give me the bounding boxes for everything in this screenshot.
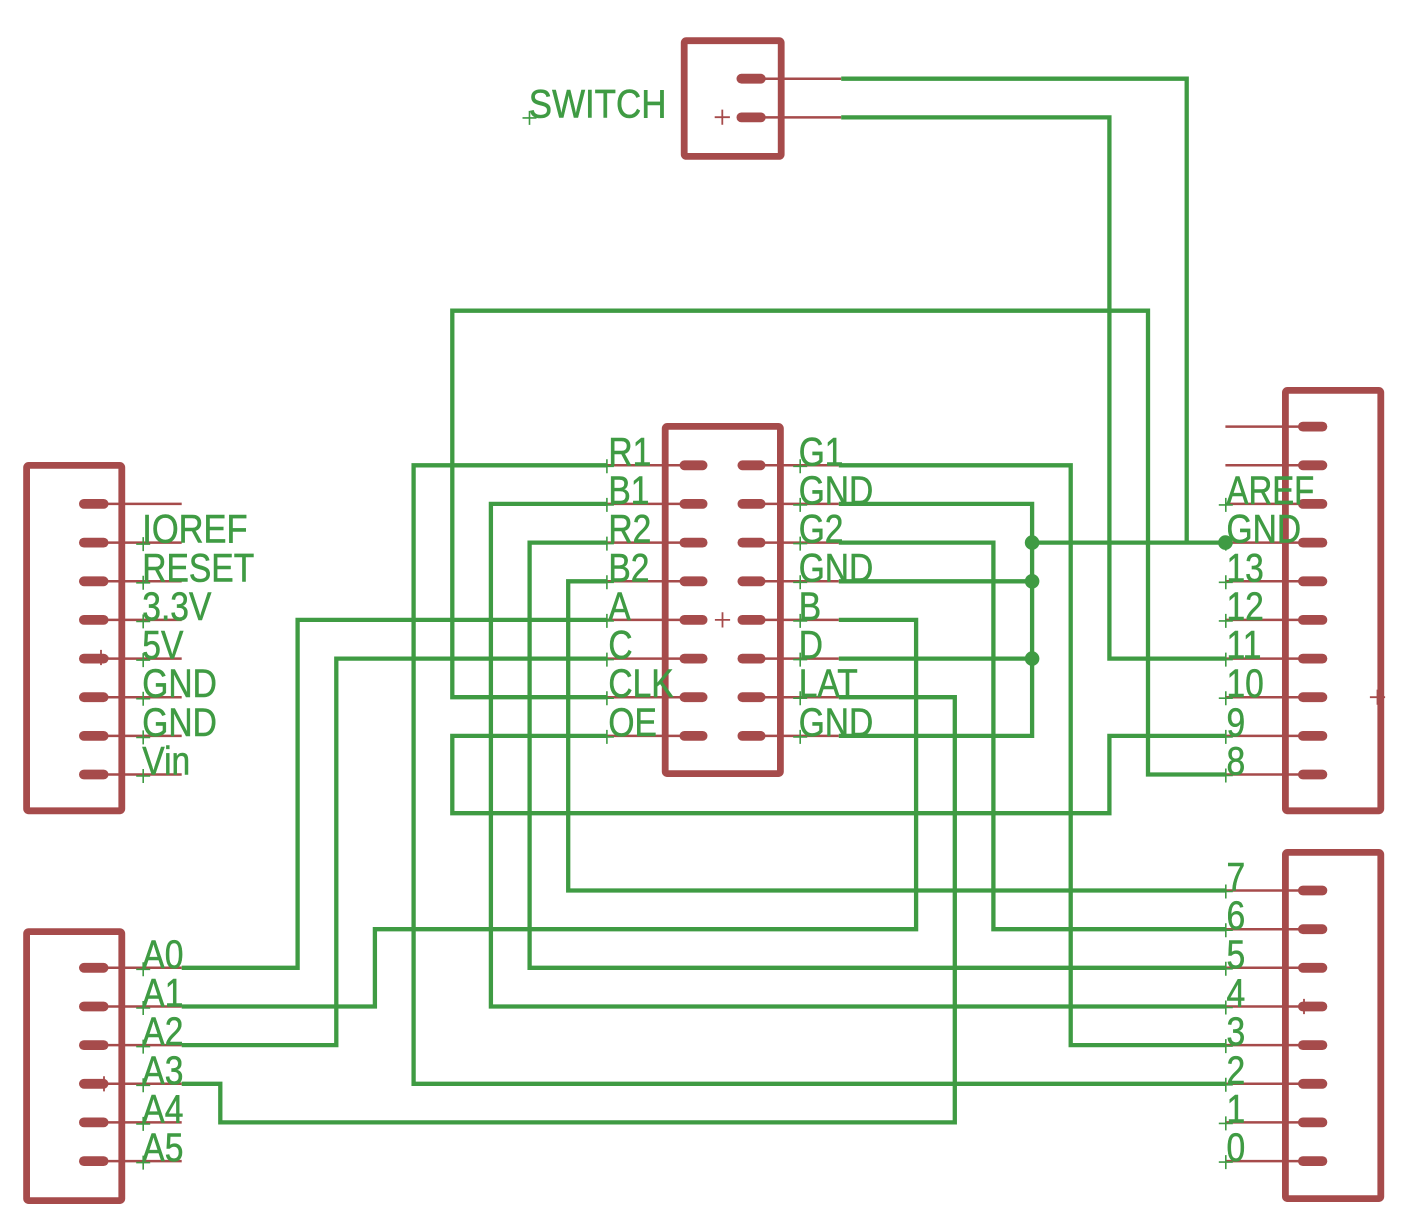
svg-text:13: 13: [1227, 546, 1264, 590]
MATRIX right pin LAT: [738, 692, 839, 702]
svg-text:G2: G2: [799, 508, 844, 552]
svg-text:3: 3: [1227, 1010, 1246, 1054]
digital header pin 8: [1225, 770, 1327, 780]
connector MATRIX body: [665, 426, 780, 773]
MATRIX left pin OE: [607, 731, 708, 741]
connector analog header origin cross: [96, 1076, 111, 1091]
power header pin IOREF: [79, 538, 182, 548]
power header pin 5V: [79, 654, 182, 664]
MATRIX left pin CLK: [607, 692, 708, 702]
pin label 1: [1219, 1087, 1245, 1131]
digital header pin 1: [1225, 1118, 1327, 1128]
power header pin Vin: [79, 770, 182, 780]
pin label B2: [600, 546, 650, 590]
pin label A0: [136, 933, 183, 977]
pin label 3: [1219, 1010, 1245, 1054]
pin label R1: [600, 430, 651, 474]
svg-text:A2: A2: [142, 1010, 183, 1054]
svg-text:A5: A5: [142, 1126, 183, 1170]
svg-text:GND: GND: [142, 662, 217, 706]
connector digital header 8-13 origin cross: [1370, 690, 1385, 705]
svg-text:3.3V: 3.3V: [142, 585, 212, 629]
MATRIX right pin B: [738, 615, 839, 625]
pin label G2 (right): [793, 508, 843, 552]
svg-text:Vin: Vin: [142, 740, 190, 784]
svg-text:GND: GND: [799, 469, 874, 513]
digital header pin GND: [1225, 538, 1327, 548]
analog header pin A2: [79, 1040, 182, 1050]
pin label 5V: [136, 624, 184, 668]
MATRIX left pin B1: [607, 499, 708, 509]
connector SWITCH pin 1: [737, 74, 842, 84]
wire G2 to pin 6: [839, 543, 1226, 930]
junction GND bus / D row: [1025, 651, 1040, 666]
svg-text:GND: GND: [142, 701, 217, 745]
digital header pin 6: [1225, 924, 1327, 934]
label SWITCH: [523, 82, 667, 126]
power header pin RESET: [79, 576, 182, 586]
analog header pin A5: [79, 1156, 182, 1166]
connector digital header 0-7 body: [1285, 852, 1380, 1198]
digital header pin 10: [1225, 692, 1327, 702]
svg-text:8: 8: [1227, 740, 1246, 784]
digital header pin 4: [1225, 1002, 1327, 1012]
MATRIX right pin GND: [738, 731, 839, 741]
pin label D (right): [793, 624, 823, 668]
svg-text:G1: G1: [799, 430, 844, 474]
svg-text:11: 11: [1227, 624, 1262, 668]
connector digital header 0-7 origin cross: [1296, 999, 1311, 1014]
pin label A2: [136, 1010, 183, 1054]
power header pin GND: [79, 731, 182, 741]
digital header pin 5: [1225, 963, 1327, 973]
svg-text:A4: A4: [142, 1087, 183, 1131]
digital header pin AREF: [1225, 499, 1327, 509]
pin label 8: [1219, 740, 1245, 784]
wire CLK to pin 8: [452, 311, 1225, 775]
wire B to A1: [182, 620, 916, 1007]
pin label A: [600, 585, 631, 629]
wire B2 to pin 7: [568, 581, 1225, 890]
connector analog header body: [27, 932, 122, 1201]
digital header pin NC: [1225, 422, 1327, 432]
pin label 2: [1219, 1049, 1245, 1093]
digital header pin 3: [1225, 1040, 1327, 1050]
pin label 6: [1219, 894, 1245, 938]
connector SWITCH origin cross: [715, 110, 730, 125]
connector SWITCH pin 2: [737, 113, 842, 123]
pin label LAT (right): [793, 662, 858, 706]
pin label A4: [136, 1087, 183, 1131]
wire B1 to pin 4: [491, 504, 1226, 1007]
digital header pin 11: [1225, 654, 1327, 664]
digital header pin 2: [1225, 1079, 1327, 1089]
pin label 12: [1219, 585, 1264, 629]
pin label A5: [136, 1126, 183, 1170]
wire LAT to A3: [182, 697, 955, 1122]
connector MATRIX origin cross: [715, 612, 730, 627]
wire R1 to pin 2: [414, 465, 1226, 1084]
digital header pin 9: [1225, 731, 1327, 741]
connector power header origin cross: [93, 650, 108, 665]
pin label OE: [600, 701, 657, 745]
MATRIX left pin R1: [607, 460, 708, 470]
digital header pin 12: [1225, 615, 1327, 625]
svg-text:AREF: AREF: [1227, 469, 1315, 513]
svg-text:C: C: [608, 624, 632, 668]
MATRIX right pin GND: [738, 576, 839, 586]
pin label AREF: [1219, 469, 1315, 513]
pin label 11: [1219, 624, 1262, 668]
pin label 13: [1219, 546, 1264, 590]
wire D to GND bus: [839, 656, 1032, 660]
svg-text:B2: B2: [608, 546, 649, 590]
MATRIX left pin R2: [607, 538, 708, 548]
digital header pin 0: [1225, 1156, 1327, 1166]
svg-text:A1: A1: [142, 972, 183, 1016]
svg-text:1: 1: [1227, 1087, 1246, 1131]
svg-text:7: 7: [1227, 856, 1246, 900]
svg-text:CLK: CLK: [608, 662, 673, 706]
pin label B (right): [793, 585, 821, 629]
pin label 0: [1219, 1126, 1245, 1170]
svg-text:A: A: [608, 585, 631, 629]
pin label R2: [600, 508, 651, 552]
MATRIX right pin GND: [738, 499, 839, 509]
svg-text:10: 10: [1227, 662, 1264, 706]
svg-text:B1: B1: [608, 469, 649, 513]
svg-text:A3: A3: [142, 1049, 183, 1093]
svg-text:GND: GND: [799, 546, 874, 590]
svg-text:A0: A0: [142, 933, 183, 977]
wire OE to pin 9: [452, 736, 1225, 813]
wire GND middle to GND bus: [839, 579, 1032, 583]
MATRIX right pin D: [738, 654, 839, 664]
wire GND bus to Arduino GND: [1032, 540, 1225, 544]
wire SWITCH pin1 to GND net: [841, 79, 1186, 543]
svg-text:RESET: RESET: [142, 546, 254, 590]
svg-text:5: 5: [1227, 933, 1246, 977]
junction GND wire at Arduino GND pin: [1218, 535, 1233, 550]
analog header pin A1: [79, 1002, 182, 1012]
svg-text:GND: GND: [799, 701, 874, 745]
pin label GND: [136, 662, 217, 706]
pin label 4: [1219, 972, 1245, 1016]
pin label CLK: [600, 662, 674, 706]
svg-text:0: 0: [1227, 1126, 1246, 1170]
wire G1 to pin 3: [839, 465, 1226, 1045]
wire C to A2: [182, 659, 607, 1046]
power header pin 3.3V: [79, 615, 182, 625]
power header pin 1 (unlabeled): [79, 499, 182, 509]
connector power header body: [27, 465, 122, 810]
svg-text:6: 6: [1227, 894, 1246, 938]
pin label A3: [136, 1049, 183, 1093]
digital header pin NC: [1225, 460, 1327, 470]
svg-text:LAT: LAT: [799, 662, 858, 706]
MATRIX left pin C: [607, 654, 708, 664]
pin label C: [600, 624, 633, 668]
analog header pin A0: [79, 963, 182, 973]
junction GND bus / GND middle: [1025, 574, 1040, 589]
pin label G1 (right): [793, 430, 843, 474]
MATRIX left pin A: [607, 615, 708, 625]
svg-text:2: 2: [1227, 1049, 1246, 1093]
svg-text:GND: GND: [1227, 508, 1302, 552]
pin label 5: [1219, 933, 1245, 977]
pin label RESET: [136, 546, 254, 590]
analog header pin A3: [79, 1079, 182, 1089]
svg-text:D: D: [799, 624, 823, 668]
svg-text:R1: R1: [608, 430, 651, 474]
pin label 9: [1219, 701, 1245, 745]
digital header pin 13: [1225, 576, 1327, 586]
svg-text:IOREF: IOREF: [142, 508, 247, 552]
connector SWITCH body: [684, 41, 781, 157]
digital header pin 7: [1225, 886, 1327, 896]
wire GND upper to GND bus: [839, 504, 1032, 736]
svg-text:5V: 5V: [142, 624, 184, 668]
svg-text:B: B: [799, 585, 821, 629]
pin label GND (right): [793, 701, 873, 745]
junction GND bus / G2 row: [1025, 535, 1040, 550]
pin label 7: [1219, 856, 1245, 900]
pin label A1: [136, 972, 183, 1016]
MATRIX right pin G2: [738, 538, 839, 548]
analog header pin A4: [79, 1118, 182, 1128]
pin label IOREF: [136, 508, 247, 552]
pin label GND (right): [793, 469, 873, 513]
pin label 3.3V: [136, 585, 212, 629]
MATRIX right pin G1: [738, 460, 839, 470]
svg-text:12: 12: [1227, 585, 1264, 629]
svg-text:4: 4: [1227, 972, 1246, 1016]
pin label Vin: [136, 740, 190, 784]
wire SWITCH pin2 to pin 11: [841, 117, 1225, 658]
svg-text:SWITCH: SWITCH: [529, 82, 667, 126]
svg-text:9: 9: [1227, 701, 1246, 745]
pin label GND (right): [793, 546, 873, 590]
svg-text:R2: R2: [608, 508, 651, 552]
pin label GND: [136, 701, 217, 745]
pin label 10: [1219, 662, 1264, 706]
wire R2 to pin 5: [530, 543, 1226, 968]
power header pin GND: [79, 692, 182, 702]
MATRIX left pin B2: [607, 576, 708, 586]
pin label B1: [600, 469, 650, 513]
svg-text:OE: OE: [608, 701, 657, 745]
pin label GND: [1219, 508, 1301, 552]
connector digital header 8-13 body: [1285, 390, 1380, 810]
wire A to A0: [182, 620, 607, 968]
